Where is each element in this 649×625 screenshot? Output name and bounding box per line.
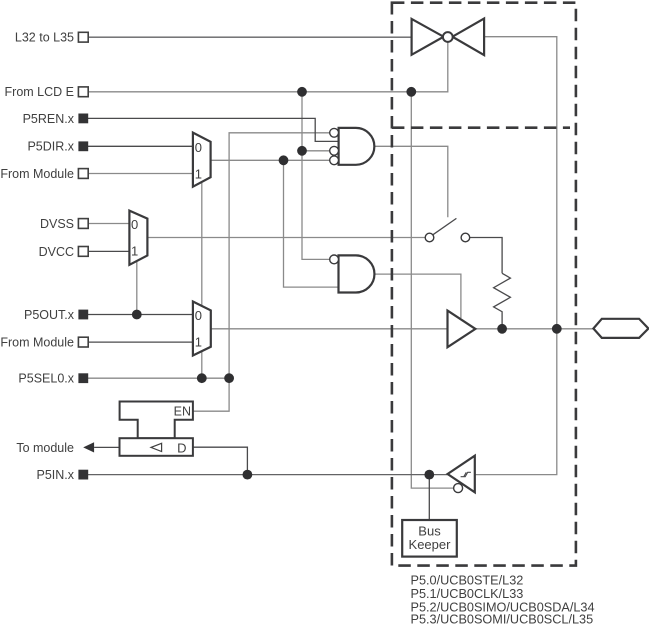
LCD switch center circle [443, 32, 453, 42]
node gate1 input3 tap [297, 146, 307, 156]
wire L32toL35 row [88, 36, 412, 38]
wire output buffer to pad [475, 328, 593, 330]
wire From LCD E row [88, 42, 448, 92]
latch top EN section [120, 402, 193, 439]
switch contact left [425, 233, 434, 242]
svg-text:DVCC: DVCC [39, 245, 74, 259]
node LCD E / buffer enable branch [406, 87, 416, 97]
and-gate G2 [339, 255, 375, 292]
terminal P5DIR.x [78, 141, 88, 151]
gate2 bubble input1 [330, 255, 339, 264]
svg-text:To module: To module [16, 441, 74, 455]
wire LCD E branch down to gate2 input1 [302, 92, 330, 260]
terminal DVCC [78, 247, 88, 257]
wire node branch mux1out down to gate2 input2 [284, 160, 339, 287]
terminal From Module 2 [78, 337, 88, 347]
switch lever [433, 218, 457, 234]
wire P5SEL0 row [88, 377, 229, 379]
terminal squares [78, 32, 88, 347]
svg-text:DVSS: DVSS [40, 217, 74, 231]
wire to module from latch [94, 446, 119, 448]
dashed module boundary [392, 3, 576, 566]
svg-text:From LCD E: From LCD E [5, 85, 74, 99]
input buffer enable bubble [454, 484, 463, 493]
svg-text:0: 0 [131, 217, 138, 232]
terminal From LCD E [78, 87, 88, 97]
svg-text:P5.0/UCB0STE/L32: P5.0/UCB0STE/L32 [411, 574, 524, 588]
svg-text:P5DIR.x: P5DIR.x [27, 140, 74, 154]
SHAPES [129, 19, 648, 493]
node LCD E / gates branch [297, 87, 307, 97]
wire bus keeper drop [428, 475, 430, 520]
and-gate G1 [339, 128, 375, 165]
svg-text:1: 1 [195, 166, 202, 181]
svg-text:1: 1 [195, 335, 202, 350]
terminal P5IN.x [78, 470, 88, 480]
dashed divider LCD section [392, 126, 570, 129]
wire mux2 output to switch [147, 237, 425, 239]
output buffer driver [448, 311, 476, 348]
svg-text:D: D [177, 440, 186, 455]
terminal P5REN.x [78, 114, 88, 124]
svg-text:From Module: From Module [0, 167, 74, 181]
terminal From Module 1 [78, 169, 88, 179]
node D out / P5IN [243, 470, 253, 480]
wire mux1 output to gate1 input4 [211, 159, 330, 161]
svg-text:P5.3/UCB0SOMI/UCB0SCL/L35: P5.3/UCB0SOMI/UCB0SCL/L35 [411, 613, 594, 625]
svg-text:Bus: Bus [418, 523, 441, 538]
mux U2 DVSS/DVCC select [129, 211, 147, 265]
input buffer schmitt [448, 456, 475, 493]
svg-text:P5IN.x: P5IN.x [36, 468, 74, 482]
arrow to module [83, 442, 94, 452]
terminal DVSS [78, 219, 88, 229]
node P5OUT / mux2 select [132, 310, 142, 320]
node P5SEL0 / EN branch [224, 373, 234, 383]
wire gate2 output to buffer enable [375, 274, 461, 318]
node P5IN / bus keeper [424, 470, 434, 480]
svg-text:P5SEL0.x: P5SEL0.x [18, 372, 74, 386]
svg-text:1: 1 [131, 244, 138, 259]
mux U3 output select [193, 302, 211, 356]
small circles [330, 32, 470, 493]
gate1 bubble input4 [330, 156, 339, 165]
node P5SEL0 / mux select [197, 373, 207, 383]
svg-text:P5OUT.x: P5OUT.x [24, 308, 75, 322]
wire P5REN to gate1 input2 [88, 118, 339, 141]
node resistor / pad line [497, 324, 507, 334]
resistor R pullup zigzag [494, 273, 511, 329]
svg-text:0: 0 [195, 140, 202, 155]
gate1 bubble input3 [330, 146, 339, 155]
wire switch to resistor top [470, 238, 502, 274]
wire input buffer enable from LCD E [411, 92, 453, 488]
wire P5IN row [88, 474, 448, 476]
wire P5SEL0 net to EN and gate1 input1 [193, 133, 330, 411]
wire mux select vertical [201, 183, 203, 378]
LCD analog switch left triangle [412, 19, 444, 55]
terminal P5OUT.x [78, 310, 88, 320]
gate1 bubble input1 [330, 128, 339, 137]
LCD analog switch right triangle [452, 19, 484, 56]
svg-text:Keeper: Keeper [409, 537, 452, 552]
latch triangle glyph [151, 443, 162, 451]
svg-text:EN: EN [174, 405, 191, 419]
svg-text:P5REN.x: P5REN.x [23, 112, 75, 126]
wire LCD E stub to gate1 input3 [302, 150, 330, 152]
wire P5DIR to mux1 [88, 145, 193, 147]
TEXT LABELS [0, 31, 74, 482]
wire DVCC to mux2 [88, 250, 129, 252]
mux U1 direction select [193, 133, 211, 187]
svg-text:0: 0 [195, 308, 202, 323]
latch bottom D section [120, 438, 193, 456]
terminal P5SEL0.x [78, 373, 88, 383]
wire From Module to mux1 [88, 173, 193, 175]
wire mux3 output to output buffer [211, 328, 448, 330]
wire LCD switch to pad net [475, 37, 557, 475]
wire gate1 output to switch control [374, 146, 448, 217]
hysteresis symbol inside input buffer [461, 472, 471, 476]
wire mux2 select [136, 262, 138, 315]
wire latch D output to P5IN net [193, 447, 248, 474]
wire P5OUT row [88, 314, 193, 316]
node mux1 output tap [279, 155, 289, 165]
bus keeper box [402, 520, 457, 557]
switch contact right [461, 233, 470, 242]
latch EN/D [120, 402, 193, 456]
wire From Module to mux3 [88, 341, 193, 343]
svg-text:From Module: From Module [0, 336, 74, 350]
svg-text:P5.1/UCB0CLK/L33: P5.1/UCB0CLK/L33 [411, 587, 524, 601]
terminal L32 to L35 [78, 32, 88, 42]
node pad line / input branch [552, 324, 562, 334]
pad hexagon [593, 319, 648, 338]
svg-text:L32 to L35: L32 to L35 [15, 31, 74, 45]
wire DVSS to mux2 [88, 223, 129, 225]
